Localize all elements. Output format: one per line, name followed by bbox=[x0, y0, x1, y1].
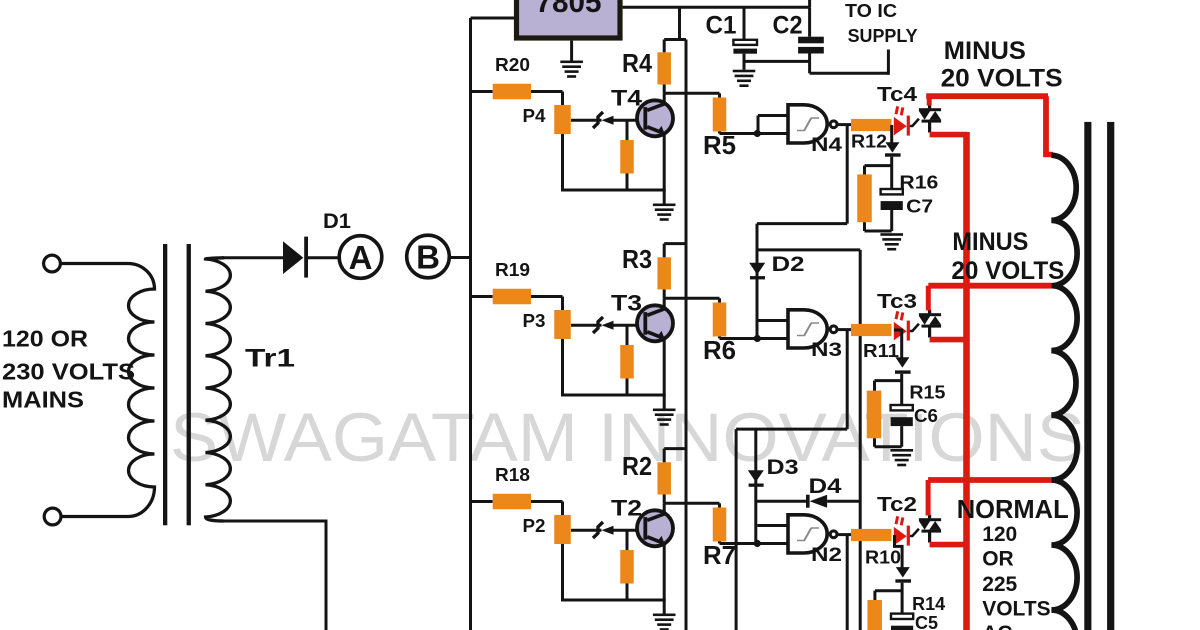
wiper wire P3 to T3 base bbox=[571, 324, 602, 327]
node B bbox=[407, 235, 450, 278]
wire T2 base node down bbox=[626, 530, 629, 551]
svg-text:B: B bbox=[416, 239, 440, 276]
wiper wire P4 to T4 base bbox=[571, 119, 602, 122]
svg-text:P4: P4 bbox=[523, 105, 547, 126]
svg-text:MINUS: MINUS bbox=[952, 228, 1028, 256]
wire stub to top edge bbox=[808, 0, 811, 7]
resistor R14 bbox=[867, 600, 882, 630]
wire N4 output down-feed bbox=[846, 125, 849, 224]
wire T4 base node down bbox=[626, 120, 629, 141]
wire R3 top to rail bbox=[663, 244, 666, 258]
wire T3 emitter row bbox=[561, 394, 666, 397]
wire preset P2 bottom bbox=[561, 544, 564, 600]
diode red Tc3 gate bbox=[894, 322, 907, 341]
diode below Tc2 gate bbox=[896, 567, 910, 577]
resistor R15 bbox=[867, 391, 882, 439]
svg-text:R14: R14 bbox=[912, 593, 946, 614]
wiper wire P2 to T2 base bbox=[571, 529, 602, 532]
wire bus to R19 bbox=[471, 295, 493, 298]
wire emitter of T3 bbox=[663, 337, 666, 396]
svg-text:Tc3: Tc3 bbox=[877, 291, 917, 313]
wire secondary top to D1 bbox=[222, 256, 284, 259]
diode below Tc4 gate bbox=[885, 142, 899, 152]
diode D3 bbox=[748, 470, 764, 482]
wire T3 base node down bbox=[626, 325, 629, 346]
wire T2 base resistor to emitter row bbox=[626, 584, 629, 601]
terminal bottom-left bbox=[44, 508, 61, 525]
diode red Tc2 gate bbox=[894, 527, 907, 546]
wire bus to 7805 input bbox=[471, 17, 517, 20]
wire R15 bottom row bbox=[873, 438, 876, 446]
junction dot N2 input bbox=[754, 540, 761, 547]
resistor R20 bbox=[493, 84, 531, 100]
wire T2 emitter row bbox=[561, 599, 666, 602]
triac Tc4 bbox=[919, 108, 941, 111]
svg-text:NORMAL: NORMAL bbox=[957, 494, 1069, 524]
node row R15 top bbox=[875, 379, 902, 382]
svg-text:D4: D4 bbox=[809, 475, 842, 498]
svg-text:7805: 7805 bbox=[536, 0, 602, 19]
transformer Tr1 core bbox=[163, 244, 167, 525]
diode below Tc3 gate bbox=[895, 357, 909, 367]
wire upper input stub N3 bbox=[757, 319, 789, 322]
transformer Tr1 secondary winding bbox=[206, 258, 231, 521]
resistor R10 bbox=[851, 529, 892, 541]
capacitor C7 bbox=[881, 189, 903, 194]
capacitor C1 bbox=[743, 7, 746, 39]
wire bus to R18 bbox=[471, 500, 493, 503]
svg-text:AC: AC bbox=[982, 622, 1012, 630]
diode red Tc4 gate bbox=[894, 117, 907, 135]
wire R12 junction down bbox=[890, 125, 893, 144]
wire preset P3 bottom bbox=[561, 339, 564, 395]
wiper arrow P2 bbox=[602, 526, 614, 535]
capacitor C6 bbox=[891, 405, 913, 410]
svg-text:230 VOLTS: 230 VOLTS bbox=[2, 359, 135, 385]
capacitor C5 bbox=[891, 614, 913, 619]
wire stub down to image edge left bbox=[735, 429, 738, 630]
red wire tap1 to Tc4 MT2 bbox=[927, 96, 932, 105]
wire R11 junction down bbox=[894, 330, 902, 359]
resistor R11 bbox=[851, 324, 892, 336]
resistor R6 bbox=[718, 298, 721, 303]
wire N3 output down-feed bbox=[846, 330, 849, 430]
svg-text:N2: N2 bbox=[811, 545, 842, 566]
resistor base-emitter of T3 bbox=[620, 345, 634, 379]
wire R20 to preset P4 bbox=[531, 90, 563, 93]
wire R5 to gate N4 input bbox=[718, 132, 721, 134]
opto marks Tc2 bbox=[895, 516, 905, 526]
diode D4 bbox=[806, 495, 810, 508]
node row R14 top bbox=[875, 589, 902, 592]
svg-text:C5: C5 bbox=[915, 612, 938, 630]
svg-text:R16: R16 bbox=[899, 172, 938, 193]
svg-text:Tc4: Tc4 bbox=[877, 84, 918, 106]
red wire tap2 drop to Tc3 MT2 bbox=[926, 286, 931, 311]
wire down to diode D3 bbox=[754, 429, 757, 543]
ground T4 emitter bbox=[663, 190, 666, 204]
wire branch to D4 line bbox=[757, 248, 860, 251]
wire upper input stub N4 bbox=[757, 116, 760, 134]
svg-text:R4: R4 bbox=[622, 48, 652, 78]
wire 7805 output bbox=[623, 6, 810, 9]
svg-text:R15: R15 bbox=[909, 382, 945, 403]
svg-text:A: A bbox=[349, 239, 373, 276]
wire gate of Tc3 bbox=[910, 324, 919, 331]
output transformer winding bbox=[1051, 155, 1077, 630]
wire collector of T2 bbox=[663, 503, 666, 515]
wiper arrow P4 bbox=[602, 116, 614, 125]
preset P4 bbox=[554, 105, 571, 134]
svg-text:C7: C7 bbox=[906, 196, 933, 217]
svg-text:T4: T4 bbox=[611, 86, 643, 111]
red wire tap3 drop to Tc2 MT2 bbox=[926, 480, 931, 516]
svg-text:MAINS: MAINS bbox=[2, 387, 84, 413]
wire emitter of T4 bbox=[663, 132, 666, 191]
wire R7 to gate N2 input bbox=[718, 542, 721, 544]
svg-text:225: 225 bbox=[982, 573, 1017, 596]
IC regulator 7805 bbox=[517, 0, 621, 38]
wire gate of Tc4 bbox=[910, 119, 919, 126]
wire D4 feed vertical bbox=[859, 250, 862, 630]
capacitor C2 bbox=[808, 7, 811, 36]
wire down to diode D2 bbox=[756, 224, 759, 339]
wire T3 base resistor to emitter row bbox=[626, 379, 629, 396]
diode D2 bbox=[749, 263, 765, 275]
resistor base-emitter of T2 bbox=[620, 550, 634, 584]
svg-text:20 VOLTS: 20 VOLTS bbox=[941, 64, 1063, 92]
red wire tap1 MINUS 20V bbox=[926, 93, 1048, 99]
wire T4 emitter row bbox=[561, 189, 666, 192]
resistor R16 bbox=[857, 174, 872, 222]
junction dot N4 input bbox=[754, 130, 761, 137]
resistor R19 bbox=[493, 289, 531, 305]
triac Tc2 bbox=[919, 518, 941, 521]
wire N2 output bbox=[838, 533, 851, 536]
triac Tc3 bbox=[919, 313, 941, 316]
transformer Tr1 primary winding bbox=[60, 264, 154, 517]
wire R6 to gate N3 input bbox=[718, 337, 721, 339]
wire emitter of T2 bbox=[663, 542, 666, 601]
resistor R7 bbox=[718, 503, 721, 508]
svg-text:T3: T3 bbox=[611, 291, 642, 316]
red wire tap3 NORMAL bbox=[928, 477, 1051, 483]
svg-text:MINUS: MINUS bbox=[944, 37, 1026, 65]
svg-text:R11: R11 bbox=[863, 340, 899, 361]
red wire Tc2 MT1 to bus bbox=[930, 542, 967, 548]
svg-text:R3: R3 bbox=[622, 244, 652, 274]
wire secondary bottom bbox=[222, 521, 326, 630]
red output bus bbox=[963, 132, 970, 630]
wire node B to bus bbox=[449, 256, 472, 259]
resistor R18 bbox=[493, 494, 531, 510]
red wire tap1 riser to winding bbox=[1043, 96, 1049, 153]
transistor T4 bbox=[637, 100, 673, 136]
preset P2 bbox=[554, 515, 571, 544]
wire T2 collector row bbox=[663, 495, 666, 504]
resistor R12 bbox=[851, 119, 892, 131]
transistor T2 bbox=[637, 510, 673, 546]
svg-text:R10: R10 bbox=[865, 547, 901, 568]
svg-text:P3: P3 bbox=[523, 310, 546, 331]
ground C1 bbox=[733, 70, 756, 73]
svg-text:Tc2: Tc2 bbox=[877, 494, 917, 516]
wire main bus vertical bbox=[469, 18, 472, 630]
svg-text:OR: OR bbox=[982, 548, 1014, 571]
diode D1 bbox=[283, 241, 303, 274]
wire supply rail vertical bbox=[685, 40, 688, 630]
red wire tap2 MINUS 20V bbox=[928, 283, 1051, 289]
wire N4 output bbox=[838, 123, 851, 126]
opto marks Tc3 bbox=[895, 311, 905, 321]
wire R19 to preset P3 bbox=[531, 295, 563, 298]
red wire Tc3 MT1 to bus bbox=[930, 337, 967, 343]
resistor R3 bbox=[657, 257, 671, 289]
red wire Tc4 MT1 to bus bbox=[930, 132, 967, 138]
transistor T3 bbox=[637, 305, 673, 341]
svg-text:C6: C6 bbox=[914, 405, 938, 426]
wire N3 output bbox=[838, 328, 851, 331]
svg-text:R2: R2 bbox=[622, 451, 652, 481]
node A bbox=[339, 236, 382, 279]
ground R15 C6 bbox=[890, 449, 913, 452]
ground 7805 bbox=[570, 41, 573, 61]
svg-text:D2: D2 bbox=[772, 253, 805, 276]
wire T4 collector row bbox=[663, 85, 666, 94]
wire D1 to node A bbox=[308, 256, 340, 259]
resistor R5 bbox=[718, 93, 721, 98]
resistor base-emitter of T4 bbox=[620, 140, 634, 174]
wire D4 to feed line bbox=[827, 500, 860, 503]
svg-text:SUPPLY: SUPPLY bbox=[848, 26, 918, 46]
svg-text:VOLTS: VOLTS bbox=[982, 598, 1050, 621]
svg-text:Tr1: Tr1 bbox=[245, 345, 295, 373]
wire R2 top to rail bbox=[663, 449, 666, 463]
wire T4 base resistor to emitter row bbox=[626, 174, 629, 191]
wire upper input stub N2 bbox=[757, 524, 789, 527]
preset P3 bbox=[554, 310, 571, 339]
svg-text:120 OR: 120 OR bbox=[2, 326, 88, 352]
svg-text:D3: D3 bbox=[767, 456, 799, 479]
nand gate N3 bbox=[788, 310, 827, 348]
output transformer core bbox=[1084, 122, 1091, 630]
wiper arrow P3 bbox=[602, 321, 614, 330]
wire T3 collector row bbox=[663, 290, 666, 299]
wire C1 to C2 bottom bbox=[744, 60, 810, 63]
nand gate N4 bbox=[788, 105, 827, 143]
ground T3 emitter bbox=[663, 395, 666, 409]
opto marks Tc4 bbox=[895, 106, 905, 116]
svg-text:R20: R20 bbox=[495, 54, 530, 75]
svg-text:C1: C1 bbox=[706, 12, 737, 40]
wire collector of T3 bbox=[663, 298, 666, 310]
resistor R4 bbox=[657, 52, 671, 84]
svg-text:D1: D1 bbox=[323, 210, 351, 233]
svg-text:R12: R12 bbox=[851, 131, 887, 152]
wire R18 to preset P2 bbox=[531, 500, 563, 503]
junction dot N3 input bbox=[754, 335, 761, 342]
wire preset P4 bottom bbox=[561, 134, 564, 190]
wire R16 bottom row bbox=[863, 222, 866, 231]
wire to IC supply stub bbox=[810, 72, 889, 75]
wire collector of T4 bbox=[663, 93, 666, 105]
ground R16 C7 bbox=[880, 233, 903, 236]
svg-text:TO IC: TO IC bbox=[845, 1, 897, 21]
nand gate N2 bbox=[788, 515, 827, 553]
node row R16 top bbox=[865, 164, 892, 167]
terminal top-left bbox=[44, 255, 61, 272]
wire R4 top to rail bbox=[663, 40, 666, 53]
wire N2 output down-feed bbox=[846, 535, 849, 630]
svg-text:R18: R18 bbox=[495, 464, 530, 485]
svg-text:C2: C2 bbox=[773, 12, 803, 40]
svg-text:N4: N4 bbox=[811, 135, 843, 156]
ground T2 emitter bbox=[663, 600, 666, 614]
svg-text:T2: T2 bbox=[611, 496, 642, 521]
wire R10 junction down bbox=[895, 535, 903, 569]
diode D4 row bbox=[756, 500, 806, 503]
svg-text:120: 120 bbox=[982, 523, 1017, 546]
svg-text:N3: N3 bbox=[811, 340, 842, 361]
svg-text:20 VOLTS: 20 VOLTS bbox=[951, 257, 1064, 285]
svg-text:P2: P2 bbox=[523, 515, 546, 536]
svg-text:R19: R19 bbox=[495, 259, 530, 280]
resistor R2 bbox=[657, 462, 671, 494]
wire gate of Tc2 bbox=[910, 529, 919, 536]
wire bus to R20 bbox=[471, 90, 493, 93]
